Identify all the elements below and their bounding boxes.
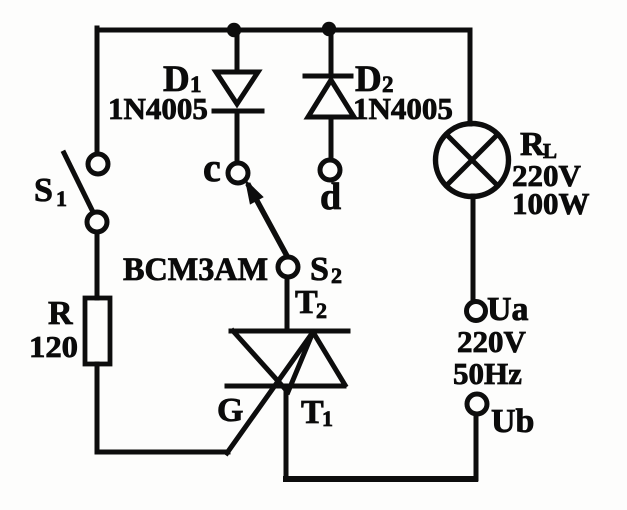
resistor R: [85, 298, 110, 364]
node junction top-left: [227, 23, 241, 37]
label RL: [520, 126, 557, 163]
svg-text:2: 2: [331, 263, 342, 288]
wire Ub down to bottom: [474, 414, 479, 479]
label T1: [301, 394, 333, 431]
svg-text:S: S: [310, 251, 329, 288]
wire bottom right horizontal: [286, 476, 475, 482]
triac V1: [227, 331, 348, 453]
svg-text:R: R: [48, 295, 73, 332]
svg-text:120: 120: [29, 329, 78, 364]
svg-text:BCM3AM: BCM3AM: [123, 252, 268, 288]
svg-text:100W: 100W: [512, 186, 590, 221]
wire triac T1 down: [284, 386, 289, 479]
wire right vertical (to lamp): [468, 30, 473, 124]
svg-text:Ub: Ub: [491, 403, 534, 440]
svg-text:1: 1: [322, 406, 333, 431]
node Ua terminal: [467, 302, 486, 321]
svg-text:1: 1: [56, 186, 67, 211]
diode D2: [305, 29, 354, 160]
node Ub terminal: [467, 394, 487, 414]
label S1: [34, 172, 67, 211]
wire top horizontal: [97, 28, 470, 33]
svg-text:1N4005: 1N4005: [108, 91, 208, 126]
label D2: [355, 59, 394, 100]
lamp RL: [436, 124, 509, 197]
node d terminal: [320, 160, 340, 180]
wire S2 to triac T2: [285, 277, 290, 331]
svg-text:50Hz: 50Hz: [453, 356, 522, 391]
switch S2 terminal: [278, 257, 298, 277]
node junction top-right: [322, 22, 336, 36]
svg-text:T: T: [301, 394, 324, 431]
wire lamp to Ua: [471, 196, 476, 301]
svg-text:220V: 220V: [457, 324, 527, 359]
diode D1: [214, 30, 262, 162]
wire resistor to bottom-left corner: [95, 364, 100, 452]
svg-text:Ua: Ua: [487, 291, 529, 328]
wire gate horizontal: [97, 450, 228, 455]
switch S2 wiper with arrow: [246, 181, 287, 256]
label S2: [310, 251, 342, 288]
svg-text:1N4005: 1N4005: [353, 91, 453, 126]
svg-text:S: S: [34, 172, 53, 209]
label T2: [295, 284, 327, 323]
node c terminal: [228, 163, 248, 183]
svg-text:d: d: [320, 176, 341, 218]
label D1: [163, 59, 202, 100]
svg-text:T: T: [295, 284, 318, 321]
svg-text:G: G: [217, 392, 243, 429]
svg-text:c: c: [203, 145, 221, 190]
switch S1: [64, 153, 108, 232]
wire left vertical: [95, 28, 100, 153]
wire S1 to resistor: [95, 232, 100, 298]
svg-text:2: 2: [316, 298, 327, 323]
